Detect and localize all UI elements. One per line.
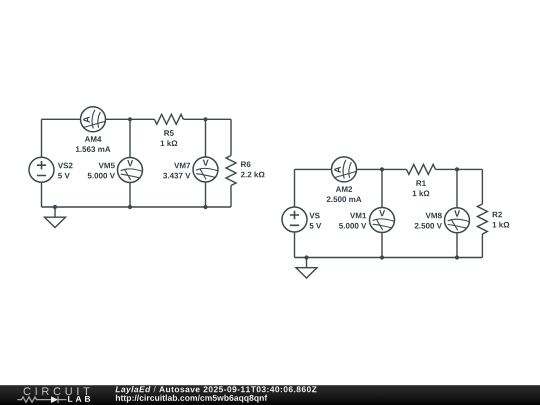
wire R6 bottom stub: [230, 186, 232, 208]
wire top rail right circuit (R1 to R2 corner): [436, 168, 483, 170]
wire ground stem left: [54, 207, 56, 217]
wire top rail left circuit (VS2 to R5): [42, 118, 155, 120]
label VM7: [174, 163, 190, 169]
node dot ground left: [53, 205, 57, 209]
node dot VM8 bottom: [455, 255, 459, 259]
wire bottom rail left circuit: [42, 206, 232, 208]
node dot VM1 bottom: [380, 255, 384, 259]
voltmeter VM8: [445, 208, 470, 233]
voltmeter VM1: [370, 208, 395, 233]
wire R2 bottom stub: [481, 234, 483, 258]
label R5: [164, 130, 174, 136]
value VS 5 V: [310, 223, 322, 229]
wire top rail right circuit (VS to R1): [295, 168, 407, 170]
label VS2: [58, 163, 73, 169]
label R6: [241, 161, 250, 167]
wire VS branch: [294, 169, 296, 257]
value R1 1 kOhm: [413, 190, 430, 196]
logo diode: [51, 396, 58, 403]
voltage source VS2: [29, 157, 54, 182]
value R5 1 kOhm: [161, 140, 178, 146]
wire VS2 branch: [41, 119, 43, 207]
label AM4: [85, 136, 102, 142]
value VM5 5.000 V: [88, 173, 115, 179]
logo resistor zigzag: [18, 397, 52, 402]
voltmeter VM5: [118, 158, 143, 183]
wire R6 top stub: [230, 119, 232, 155]
value R6 2.2 kOhm: [241, 172, 265, 178]
ground left: [45, 217, 66, 227]
label R2: [493, 212, 502, 218]
wire ground stem right: [306, 258, 308, 268]
value VM1 5.000 V: [339, 223, 366, 229]
footer title line: [115, 386, 316, 394]
wire VM5 branch: [129, 119, 131, 207]
value VS2 5 V: [58, 173, 70, 179]
node dot ground right: [304, 255, 308, 259]
node dot VM8 top: [455, 167, 459, 171]
resistor R6: [226, 156, 236, 186]
node dot VM7 bottom: [203, 205, 207, 209]
footer url line: [116, 395, 267, 403]
node dot VM7 top: [203, 117, 207, 121]
node dot VM5 top: [128, 117, 132, 121]
node dot VM1 top: [380, 167, 384, 171]
label VS: [309, 213, 319, 219]
resistor R5: [154, 114, 183, 124]
voltmeter VM7: [193, 157, 218, 182]
label R1: [416, 180, 426, 186]
ground right: [296, 268, 317, 278]
logo CIRCUIT text: [24, 387, 90, 395]
label AM2: [336, 186, 352, 192]
wire bottom rail right circuit: [295, 257, 483, 259]
value VM8 2.500 V: [415, 223, 442, 229]
ammeter AM2: [332, 157, 357, 182]
value AM2 2.500 mA: [327, 196, 362, 202]
wire R2 top stub: [481, 169, 483, 204]
value AM4 1.563 mA: [76, 146, 111, 152]
wire VM8 branch: [456, 169, 458, 257]
label VM8: [426, 213, 442, 219]
footer bar: [0, 385, 540, 405]
voltage source VS: [282, 207, 307, 232]
wire VM7 branch: [205, 119, 207, 207]
wire top rail left circuit (R5 to R6 corner): [183, 118, 231, 120]
resistor R1: [407, 164, 436, 174]
value VM7 3.437 V: [163, 173, 190, 179]
value R2 1 kOhm: [493, 222, 510, 228]
resistor R2: [477, 204, 487, 234]
logo LAB text: [68, 396, 90, 402]
label VM1: [350, 213, 366, 219]
node dot VM5 bottom: [128, 205, 132, 209]
wire VM1 branch: [381, 169, 383, 257]
ammeter AM4: [81, 107, 106, 132]
label VM5: [99, 163, 115, 169]
